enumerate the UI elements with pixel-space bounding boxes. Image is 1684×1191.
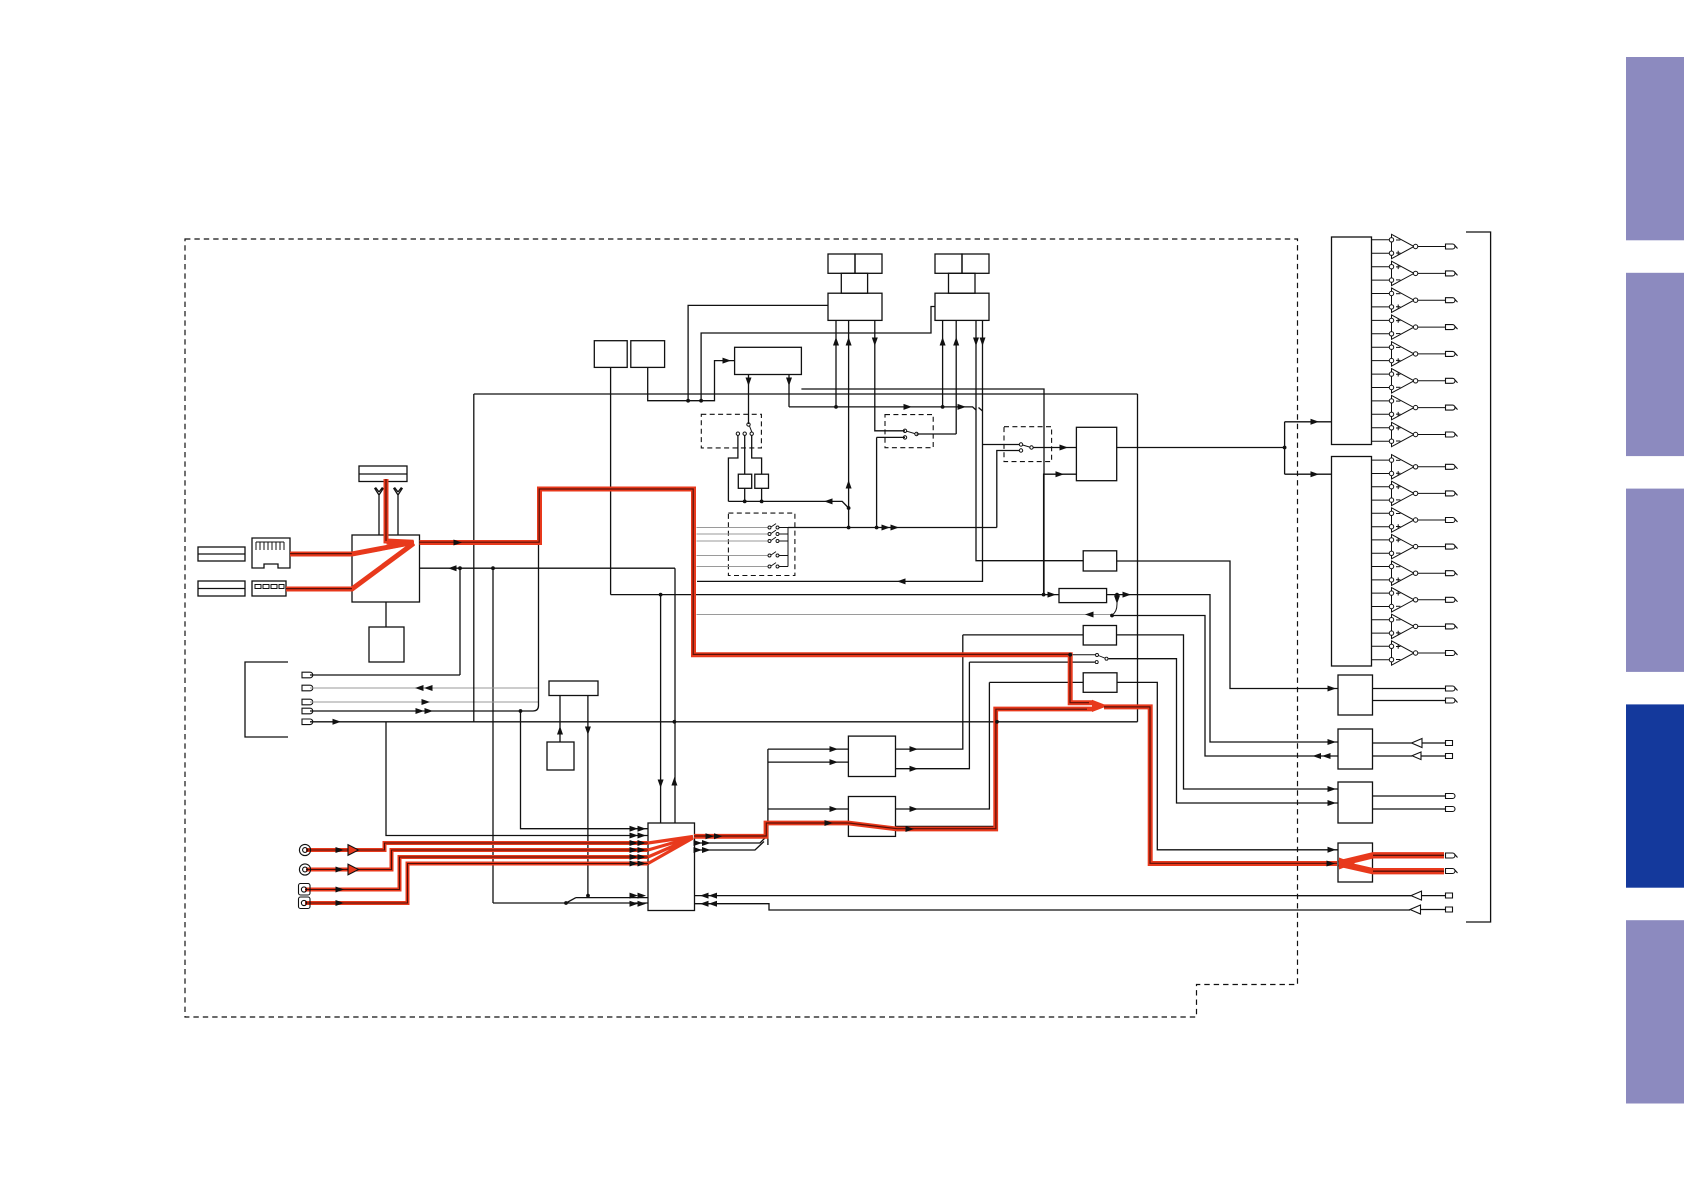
- wire card1 feed y305: [688, 305, 828, 400]
- wire T4 to pill: [1421, 909, 1446, 911]
- arrow sel in 863.5: [630, 861, 639, 867]
- wire monitor to x1205: [1112, 616, 1338, 757]
- wire T3 to pill: [1422, 895, 1446, 897]
- DA output amp bank2 ch1: [1372, 455, 1458, 479]
- input connector XLR 2: [299, 864, 310, 875]
- solo box U28: [1083, 673, 1117, 693]
- DSP box U20: [549, 681, 598, 696]
- red stereo bus out of selector: [694, 709, 1093, 836]
- arrow u31 in1: [830, 746, 839, 752]
- input connector XLR 1: [299, 844, 310, 855]
- DA output amp bank2 ch5: [1372, 561, 1458, 585]
- arrow gpi P3: [422, 699, 431, 705]
- wire P3 gray: [310, 701, 538, 703]
- arrow card1 p3: [872, 338, 878, 347]
- wire U32 out2 loop: [896, 722, 998, 827]
- wire U32 in1: [768, 808, 849, 810]
- expansion card 2 slot box: [935, 293, 989, 320]
- arrow b2 in1: [1328, 739, 1337, 745]
- SW2 blade: [1023, 445, 1030, 447]
- input buffer triangle T3: [1411, 891, 1422, 900]
- arrow sel in 828.7: [630, 826, 639, 832]
- talkback box U27: [1083, 626, 1116, 646]
- SW2 contact b: [1019, 449, 1022, 452]
- wire wc c jog: [752, 435, 762, 474]
- arrow gpi P4: [416, 708, 425, 714]
- word clock box U22: [594, 341, 627, 368]
- junction d: [686, 399, 690, 403]
- connector pill P3: [302, 699, 313, 705]
- wire oscillator feed y595: [611, 594, 1059, 596]
- junction b: [491, 566, 495, 570]
- arrow dsp down: [585, 727, 591, 736]
- arrow gpi P5: [333, 719, 342, 725]
- output group bracket: [1466, 232, 1491, 922]
- input amp triangle ch2: [348, 864, 359, 875]
- cascade bus y528: [788, 527, 997, 529]
- wire U31 in1: [768, 748, 849, 750]
- arrow x848 mid: [846, 480, 852, 489]
- resistor R2: [755, 474, 769, 488]
- page tab bar 4 (active): [1626, 704, 1684, 887]
- junction r: [1283, 446, 1287, 450]
- connector pill P5: [302, 719, 313, 725]
- phones out box B1: [1338, 675, 1373, 715]
- page tab bar 3: [1626, 489, 1684, 672]
- arrow in1: [336, 847, 345, 853]
- junction f: [834, 405, 838, 409]
- antenna 2: [394, 487, 403, 535]
- SW1 contact b: [903, 436, 906, 439]
- arrow y581: [897, 578, 906, 584]
- wire U24 leg x789: [788, 375, 790, 407]
- SW1 common: [915, 432, 918, 435]
- wire U31 in2: [768, 761, 849, 763]
- arrow card2 p1: [940, 337, 946, 346]
- red net trunk path (router to DA/2TR): [420, 489, 1094, 703]
- arrow in3: [336, 887, 345, 893]
- arrow sel thin out b: [694, 847, 703, 853]
- wire vert x474 loop: [473, 394, 475, 722]
- arrow in2: [336, 867, 345, 873]
- monitor DA box U32: [848, 797, 895, 837]
- expansion card 1 top box B: [855, 254, 882, 273]
- wire P1 to x460: [310, 674, 460, 676]
- sync select dashed box SW1: [885, 415, 933, 448]
- arrow sel 2tr b: [700, 901, 709, 907]
- junction n: [875, 526, 879, 530]
- arrow gpi P2: [415, 685, 424, 691]
- wire SW2 b feed x997: [997, 451, 1020, 528]
- arrow mon gray: [1085, 612, 1094, 618]
- clock master box U24: [735, 347, 802, 374]
- arrow u31 out2: [910, 766, 919, 772]
- red merge wye arrow: [1092, 700, 1108, 712]
- page tab bar 1: [1626, 57, 1684, 240]
- wire x660 to selector top: [660, 595, 662, 823]
- DA output amp bank1 ch5: [1372, 342, 1458, 366]
- word clock box U23: [631, 341, 665, 368]
- red input line 4 (line D): [305, 864, 648, 904]
- DA output amp bank1 ch7: [1372, 395, 1458, 419]
- arrow u24 in: [723, 358, 732, 364]
- wire SW2 out: [1033, 447, 1076, 449]
- arrow u31 in2: [830, 759, 839, 765]
- junction u: [673, 720, 677, 724]
- wire monitor gray y614: [697, 614, 1113, 616]
- NETWORK label plate: [198, 547, 245, 561]
- red fan inside selector: [648, 837, 693, 864]
- studio out box B3: [1338, 782, 1373, 823]
- monitor AD box U31: [848, 736, 895, 776]
- red 2TR wye out: [1339, 855, 1444, 871]
- wc switch contact c: [750, 432, 753, 435]
- mixer engine box U25: [1076, 427, 1116, 480]
- wire host bus y400: [648, 361, 735, 401]
- cascade bank collector: [779, 528, 788, 567]
- DA output amp bank1 ch6: [1372, 369, 1458, 393]
- arrow card2 p3: [973, 338, 979, 347]
- red trunk to 2TR rec: [1104, 707, 1337, 864]
- wire U32 out1 to solo: [896, 682, 990, 809]
- SW2 contact a: [1019, 443, 1022, 446]
- wire B3 out1: [1373, 795, 1446, 797]
- connector pill P2: [302, 685, 313, 691]
- arrow sel top up: [671, 777, 677, 786]
- wire U24 leg x748: [748, 375, 750, 425]
- wire bus y394: [474, 393, 1138, 395]
- wire R1 bottom: [744, 488, 746, 501]
- arrow st bus2: [906, 826, 915, 832]
- SW2 common: [1030, 446, 1033, 449]
- expansion card 1 bridge: [841, 273, 867, 293]
- wire card1 pin3 x875: [875, 320, 905, 430]
- arrow u32 out1: [910, 806, 919, 812]
- wire DSP leg x588: [587, 696, 589, 896]
- junction e: [699, 399, 703, 403]
- junction q: [1110, 614, 1114, 618]
- connector pill P4: [302, 708, 313, 714]
- page tab bar 5: [1626, 920, 1684, 1103]
- wire DSP leg x560: [559, 696, 561, 743]
- red input line 3 (line C): [305, 857, 648, 890]
- arrow net trunk: [454, 540, 463, 546]
- oscillator box U26: [1059, 589, 1107, 603]
- wire selector thin out B: [695, 842, 764, 851]
- expansion card 1 slot box: [828, 293, 882, 320]
- wire card1 pin1 x836: [835, 320, 837, 407]
- wire card2 pin3 x976: [976, 320, 1083, 560]
- DA distribution elbow: [1285, 422, 1332, 474]
- 2tr out switch SW4: [1095, 654, 1108, 664]
- arrow sw2 out: [1060, 445, 1069, 451]
- junction k: [760, 500, 764, 504]
- wire U25 out to elbow: [1117, 447, 1285, 449]
- selector box U30: [648, 823, 695, 911]
- arrow u24 leg2: [786, 378, 792, 387]
- junction y: [995, 720, 999, 724]
- junction g: [941, 405, 945, 409]
- arrow mon down: [1114, 596, 1120, 605]
- DA output amp bank1 ch3: [1372, 288, 1458, 312]
- junction s: [586, 894, 590, 898]
- junction o: [1068, 653, 1072, 657]
- wc switch pivot: [747, 423, 750, 426]
- DA output amp bank2 ch6: [1372, 588, 1458, 612]
- arrow b1 in: [1328, 686, 1337, 692]
- GPI bracket: [245, 662, 288, 737]
- arrow sel in 843: [630, 840, 639, 846]
- wire T2 to pill: [1421, 755, 1446, 757]
- wifi router box U11: [352, 535, 420, 602]
- monitor source switch SW3: [1112, 595, 1117, 615]
- wire U31 out1 to talkback: [896, 635, 963, 749]
- arrow sel in 850: [630, 847, 639, 853]
- wire router control out y568: [420, 567, 676, 569]
- arrow card2 p2: [953, 337, 959, 346]
- arrow b3 in2: [1328, 800, 1337, 806]
- DA output amp bank2 ch2: [1372, 481, 1458, 505]
- wire B3 out2: [1373, 808, 1446, 810]
- wireless antenna unit U10: [359, 466, 407, 482]
- wire vert x460 (aux in join): [459, 568, 461, 675]
- wire y568 branch down x675: [674, 568, 676, 823]
- SW1 blade: [907, 431, 915, 433]
- wire B1 out2: [1373, 700, 1446, 702]
- wire wc a to termination resistor R1: [728, 435, 738, 501]
- wire R2 bottom: [761, 488, 763, 501]
- arrow sel red out: [706, 833, 715, 839]
- connector pill P1: [302, 672, 313, 678]
- flash memory box U12: [369, 627, 404, 662]
- DA output amp bank2 ch4: [1372, 534, 1458, 558]
- junction i: [1042, 593, 1046, 597]
- red input line 1 (mic/line A): [306, 843, 648, 850]
- wire aux bus y389: [801, 389, 1044, 595]
- wire B2 port1: [1373, 742, 1412, 744]
- red router fan to RJ45: [290, 542, 414, 554]
- red router fan to USB: [286, 544, 414, 590]
- wire U31 out2 to 2tr switch: [896, 662, 970, 769]
- wire termination bus y501: [728, 501, 848, 508]
- wire vert x520 to selector in1: [521, 711, 649, 829]
- arrow sel ctl in a: [630, 893, 639, 899]
- wire selector ctl jog: [493, 898, 648, 903]
- red fan inside router: [352, 542, 414, 588]
- DA bank 1: [1332, 237, 1372, 445]
- arrow dsp up: [557, 726, 563, 735]
- input connector phone jack 3: [299, 884, 311, 896]
- input buffer triangle T1: [1412, 739, 1423, 748]
- arrow sel 2tr a: [700, 893, 709, 899]
- page tab bar 2: [1626, 273, 1684, 456]
- arrow card1 p2: [846, 337, 852, 346]
- wire SW2 a feed: [983, 444, 1020, 446]
- expansion card 2 top box A: [935, 254, 962, 273]
- wire SW4 out: [1109, 659, 1339, 803]
- arrow elbow b: [1311, 471, 1320, 477]
- wire switch1 b feed x876: [877, 437, 905, 527]
- wire selector out-B right y904-910: [695, 904, 1410, 910]
- monitor level box U29: [1083, 551, 1117, 571]
- wire P2 gray: [310, 687, 538, 689]
- wire P4 up to LAN node: [310, 543, 539, 712]
- wc switch contact b: [743, 432, 746, 435]
- 2tr rec box B4: [1338, 843, 1373, 882]
- wire gray feeds to cascade bank: [697, 528, 768, 567]
- arrow osc out: [1123, 592, 1132, 598]
- cascade switch bank dashed box: [728, 513, 795, 575]
- wc switch contact a: [736, 432, 739, 435]
- arrow st bus: [825, 820, 834, 826]
- junction h: [659, 593, 663, 597]
- DA bank1 in tick: [1330, 421, 1332, 423]
- arrow b4 red: [1327, 861, 1336, 867]
- arrow b2 in2: [1322, 753, 1331, 759]
- wire solo feed y682: [989, 681, 1083, 683]
- cascade select dashed box SW2: [1004, 427, 1052, 462]
- input connector phone jack 4: [299, 897, 311, 909]
- arrow sel top down: [658, 780, 664, 789]
- wire B2 port2: [1373, 755, 1413, 757]
- DA output amp bank1 ch4: [1372, 315, 1458, 339]
- arrow osc in: [1048, 592, 1057, 598]
- wire U29 out to phones: [1117, 561, 1338, 689]
- SW1 contact a: [903, 429, 906, 432]
- input buffer triangle T2: [1412, 752, 1421, 760]
- RJ45 jack J1: [252, 538, 290, 568]
- wire vert x493 router-selector control: [492, 568, 494, 903]
- DA output amp bank1 ch8: [1372, 422, 1458, 446]
- junction a: [458, 566, 462, 570]
- arrow in4: [336, 900, 345, 906]
- arrow b3 in1: [1328, 786, 1337, 792]
- USB label plate: [198, 581, 245, 596]
- arrow y407 a: [904, 404, 913, 410]
- wire router to memory: [385, 602, 387, 627]
- DA output amp bank1 ch1: [1372, 234, 1458, 258]
- arrow u31 out1: [910, 746, 919, 752]
- wire 2tr in line A: [1298, 895, 1411, 897]
- wire card2 pin1 x942: [942, 320, 944, 407]
- junction c: [519, 709, 523, 713]
- junction t: [564, 901, 568, 905]
- monitor feed vertical x768: [767, 749, 769, 845]
- USB connector J2: [252, 581, 286, 596]
- wire 2tr switch feed y662: [969, 661, 1095, 663]
- wire U26 out: [1107, 595, 1338, 742]
- wire U27 out: [1117, 635, 1339, 789]
- wire selector thin out A: [695, 835, 768, 843]
- arrow sel in 857: [630, 854, 639, 860]
- DA output amp bank2 ch8: [1372, 641, 1458, 665]
- wire card2 pin2 x956: [917, 320, 957, 434]
- DA output amp bank1 ch2: [1372, 261, 1458, 285]
- wire T1 to pill: [1422, 742, 1446, 744]
- expansion card 1 top box A: [828, 254, 855, 273]
- arrow u24 leg1: [746, 378, 752, 387]
- expansion card 2 bridge: [949, 273, 976, 293]
- dashed digital-domain border: [185, 239, 1298, 1017]
- SW4 tap on red bus: [1070, 654, 1095, 656]
- junction j: [743, 500, 747, 504]
- wire U22 down x610: [610, 367, 612, 594]
- red input line 2 (mic/line B): [306, 850, 648, 870]
- junction p: [1115, 593, 1119, 597]
- arrow y407 b: [958, 404, 967, 410]
- arrow router ctl: [448, 565, 457, 571]
- output connector pills right column: [1446, 686, 1458, 912]
- cascade bank switches: [768, 524, 779, 568]
- arrow sel thin out a: [694, 840, 703, 846]
- wc switch blade: [750, 426, 752, 432]
- DA output amp bank2 ch7: [1372, 614, 1458, 638]
- monitor out box B2: [1338, 729, 1373, 769]
- DA bank 2: [1332, 457, 1372, 667]
- wire selector out-B right y896: [695, 895, 1411, 897]
- wire card2 pin4 x982: [697, 320, 983, 581]
- arrow b4 in1: [1328, 847, 1337, 853]
- arrow u32 in1: [830, 806, 839, 812]
- arrow card2 p4: [980, 338, 986, 347]
- arrow card1 p1: [833, 337, 839, 346]
- wire U25 in2: [1044, 474, 1077, 594]
- wire ctrl bus y407: [789, 407, 983, 411]
- wire vert x1137: [1137, 394, 1139, 722]
- DSP memory box U21: [547, 742, 574, 770]
- arrow elbow a: [1311, 419, 1320, 425]
- arrow term bus: [824, 498, 833, 504]
- arrow cascade bus: [882, 525, 891, 531]
- wire vert x386 to selector: [386, 722, 648, 836]
- wire card2 feed y333: [701, 307, 935, 401]
- wire talkback feed y634: [963, 634, 1083, 636]
- arrow sel ctl in b: [630, 901, 639, 907]
- red antenna feed: [386, 479, 414, 542]
- wire card1 pin2 x848: [848, 320, 850, 527]
- resistor R1: [738, 474, 751, 488]
- wire bus y722: [310, 721, 1138, 723]
- expansion card 2 top box B: [962, 254, 989, 273]
- antenna 1: [375, 487, 384, 535]
- wire B1 out1: [1373, 688, 1446, 690]
- input amp triangle ch1: [348, 845, 359, 856]
- DA output amp bank2 ch3: [1372, 508, 1458, 532]
- input buffer triangle T4: [1410, 905, 1421, 914]
- junction m: [847, 526, 851, 530]
- arrow sel in 835.5: [630, 833, 639, 839]
- arrow u25 in2: [1056, 471, 1065, 477]
- wordclock select dashed box: [701, 414, 761, 448]
- junction l: [847, 506, 851, 510]
- wire U28 out: [1117, 682, 1338, 849]
- wire wc b down: [744, 435, 746, 474]
